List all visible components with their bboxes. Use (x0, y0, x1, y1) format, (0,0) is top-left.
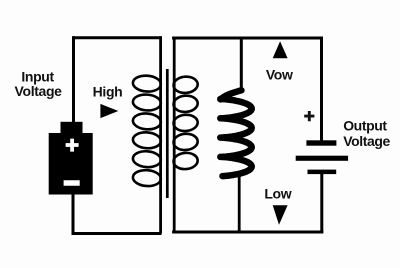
wire: right loop bottom (172, 231, 323, 234)
label: plus at capacitor (304, 111, 314, 121)
wire: primary stem (159, 36, 162, 233)
capacitor C1 middle plate (296, 156, 348, 161)
arrow: high side (right-pointing) (100, 104, 118, 118)
svg-text:Low: Low (264, 186, 291, 202)
battery B1 terminal cap (61, 122, 83, 133)
battery plus symbol (66, 139, 79, 152)
transformer T1 secondary winding (173, 76, 198, 94)
svg-text:Vow: Vow (266, 67, 293, 83)
svg-text:Voltage: Voltage (15, 83, 63, 99)
svg-text:Output: Output (343, 117, 387, 133)
wire: secondary stem (173, 37, 176, 234)
capacitor C1 top plate (306, 140, 336, 145)
transformer T1 core (166, 69, 169, 198)
wire: capacitor to bottom (320, 174, 323, 234)
battery minus symbol (64, 180, 80, 186)
inductor L1 (220, 90, 251, 176)
wire: right loop top (172, 37, 323, 40)
wire: right side top to capacitor (320, 37, 323, 141)
wire: inductor branch top (240, 37, 243, 90)
wire: left loop bottom (72, 232, 162, 235)
capacitor C1 bottom plate (308, 170, 337, 175)
battery B1 body (49, 133, 93, 195)
wire: inductor branch bottom (238, 173, 241, 233)
wire: left loop left side (72, 36, 75, 122)
svg-text:Voltage: Voltage (343, 133, 390, 149)
arrow: Low (down) (273, 205, 288, 225)
wire: battery to bottom (72, 195, 75, 236)
wire: left loop top (72, 36, 162, 39)
svg-text:High: High (93, 83, 123, 99)
transformer T1 primary winding (132, 75, 161, 93)
arrow: Vow (up) (273, 41, 288, 58)
